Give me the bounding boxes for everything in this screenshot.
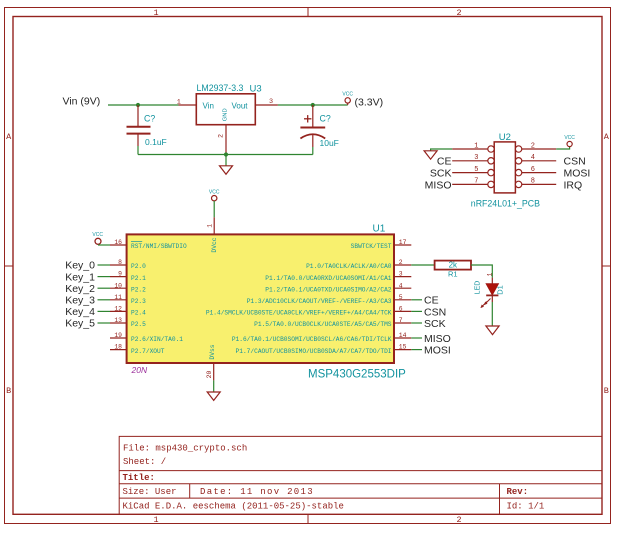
U1 left pin 13 P2.5 — [110, 317, 146, 328]
svg-text:MISO: MISO — [425, 179, 452, 191]
svg-text:Sheet: /: Sheet: / — [123, 457, 166, 467]
svg-text:C?: C? — [320, 114, 331, 124]
svg-text:CE: CE — [424, 295, 439, 307]
svg-text:Size: User: Size: User — [123, 487, 177, 497]
svg-text:12: 12 — [114, 306, 122, 313]
frame tick top — [307, 8, 309, 17]
frame tick left — [5, 265, 14, 267]
svg-text:RST/NMI/SBWTDIO: RST/NMI/SBWTDIO — [131, 243, 187, 250]
svg-text:D1: D1 — [495, 285, 504, 295]
svg-text:P1.5/TA0.0/UCB0CLK/UCA0STE/A5/: P1.5/TA0.0/UCB0CLK/UCA0STE/A5/CA5/TMS — [254, 321, 392, 328]
title block line under Size row — [119, 497, 602, 499]
svg-text:14: 14 — [399, 332, 407, 339]
svg-text:P1.6/TA0.1/UCB0SOMI/UCB0SCL/A6: P1.6/TA0.1/UCB0SOMI/UCB0SCL/A6/CA6/TDI/T… — [232, 336, 392, 343]
svg-text:Title:: Title: — [123, 473, 155, 483]
power symbol VCC at RST — [92, 232, 103, 244]
title block outline — [119, 436, 602, 514]
svg-text:SBWTCK/TEST: SBWTCK/TEST — [351, 243, 392, 250]
title block line under Title — [119, 483, 602, 485]
svg-text:P2.1: P2.1 — [131, 275, 146, 282]
U1 left pin 19 P2.6 — [110, 332, 183, 343]
title block separator Rev/Id — [499, 484, 501, 515]
svg-text:4: 4 — [531, 154, 535, 162]
wire C2 bottom — [312, 147, 314, 155]
svg-text:P1.4/SMCLK/UCB0STE/UCA0CLK/VRE: P1.4/SMCLK/UCB0STE/UCA0CLK/VREF+/VEREF+/… — [206, 310, 392, 317]
ground at U2 pin1 — [424, 151, 437, 159]
svg-text:MISO: MISO — [424, 333, 451, 345]
svg-text:1: 1 — [474, 142, 478, 150]
svg-text:SCK: SCK — [430, 168, 452, 180]
svg-text:9: 9 — [118, 271, 122, 278]
svg-text:SCK: SCK — [424, 318, 446, 330]
svg-text:2: 2 — [456, 515, 461, 525]
svg-text:U2: U2 — [499, 132, 511, 143]
resistor R1 2k — [435, 261, 471, 279]
svg-text:LED: LED — [475, 281, 482, 295]
ground under U1 — [207, 392, 220, 400]
svg-text:7: 7 — [474, 178, 478, 186]
svg-text:1: 1 — [486, 273, 493, 277]
U1 left pin 18 P2.7 — [110, 344, 165, 355]
wire SCK (U1 side) — [411, 322, 422, 324]
svg-text:IRQ: IRQ — [564, 179, 583, 191]
svg-text:File: msp430_crypto.sch: File: msp430_crypto.sch — [123, 444, 247, 454]
svg-text:17: 17 — [399, 239, 407, 246]
U1 right pin 17 — [351, 239, 412, 250]
pin 1 of U3 — [179, 104, 197, 106]
U2 left pin 1 — [452, 142, 494, 152]
wire U3 out to VCC — [278, 104, 348, 106]
U1 right pin 3 — [265, 271, 411, 282]
node junction rail/gnd — [224, 152, 228, 156]
svg-text:3: 3 — [474, 154, 478, 162]
svg-text:11: 11 — [114, 294, 122, 301]
svg-text:8: 8 — [118, 259, 122, 266]
wire Key_4 — [98, 310, 111, 312]
svg-text:16: 16 — [114, 239, 122, 246]
svg-text:VCC: VCC — [92, 232, 103, 238]
frame tick right — [602, 265, 611, 267]
svg-text:P2.7/XOUT: P2.7/XOUT — [131, 348, 165, 355]
svg-text:1: 1 — [177, 99, 181, 107]
svg-text:5: 5 — [474, 166, 478, 174]
svg-text:A: A — [6, 132, 12, 142]
svg-text:P2.4: P2.4 — [131, 310, 146, 317]
wire Key_0 — [98, 264, 111, 266]
svg-text:7: 7 — [399, 317, 403, 324]
power symbol VCC above U1 — [209, 190, 220, 201]
U1 left pin 12 P2.4 — [110, 306, 146, 317]
svg-text:P1.2/TA0.1/UCA0TXD/UCA0SIMO/A2: P1.2/TA0.1/UCA0TXD/UCA0SIMO/A2/CA2 — [265, 286, 392, 293]
svg-text:Key_3: Key_3 — [65, 295, 95, 307]
pin 20 of U1 DVss — [213, 363, 215, 380]
svg-text:P1.7/CAOUT/UCB0SIMO/UCB0SDA/A7: P1.7/CAOUT/UCB0SIMO/UCB0SDA/A7/CA7/TDO/T… — [236, 348, 392, 355]
wire CSN (U1 side) — [411, 310, 422, 312]
MCU U1 MSP430G2553 body — [127, 234, 394, 363]
wire R1 to LED — [471, 265, 492, 278]
svg-text:2k: 2k — [449, 261, 458, 270]
ground under D1 — [486, 326, 499, 335]
svg-text:CSN: CSN — [564, 156, 586, 168]
svg-text:P2.2: P2.2 — [131, 286, 146, 293]
svg-text:3: 3 — [399, 271, 403, 278]
svg-text:MOSI: MOSI — [424, 345, 451, 357]
svg-text:Key_2: Key_2 — [65, 283, 95, 295]
U1 right pin 2 — [306, 259, 411, 270]
wire MISO (U1 side) — [411, 337, 422, 339]
svg-text:2: 2 — [218, 134, 226, 138]
wire to ground symbol — [225, 155, 227, 166]
svg-text:1: 1 — [153, 515, 158, 525]
svg-text:R1: R1 — [448, 270, 458, 279]
svg-text:GND: GND — [223, 108, 229, 121]
U1 left pin 10 P2.2 — [110, 282, 146, 293]
pin 2 of U3 — [225, 125, 227, 155]
svg-text:VCC: VCC — [209, 190, 220, 196]
svg-text:P2.6/XIN/TA0.1: P2.6/XIN/TA0.1 — [131, 336, 183, 343]
U1 right pin 15 — [236, 344, 412, 355]
U1 left pin 11 P2.3 — [110, 294, 146, 305]
svg-text:LM2937-3.3: LM2937-3.3 — [197, 83, 244, 93]
svg-text:P1.3/ADC10CLK/CAOUT/VREF-/VERE: P1.3/ADC10CLK/CAOUT/VREF-/VEREF-/A3/CA3 — [247, 298, 392, 305]
wire CE (U1 side) — [411, 299, 422, 301]
capacitor C1 0.1uF — [127, 105, 167, 147]
svg-text:VCC: VCC — [564, 135, 575, 141]
svg-text:2: 2 — [399, 259, 403, 266]
svg-text:P2.0: P2.0 — [131, 263, 146, 270]
svg-text:P1.1/TA0.0/UCA0RXD/UCA0SOMI/A1: P1.1/TA0.0/UCA0RXD/UCA0SOMI/A1/CA1 — [265, 275, 392, 282]
U1 right pin 6 — [206, 306, 411, 317]
svg-text:CSN: CSN — [424, 306, 446, 318]
svg-text:4: 4 — [399, 282, 403, 289]
svg-text:8: 8 — [531, 178, 535, 186]
wire LED to ground — [491, 302, 493, 326]
U1 right pin 7 — [254, 317, 411, 328]
wire VCC to U1 pin 1 — [213, 201, 215, 217]
svg-text:6: 6 — [531, 166, 535, 174]
svg-text:B: B — [604, 386, 609, 396]
wire Key_5 — [98, 322, 111, 324]
frame tick bottom — [307, 514, 309, 523]
svg-text:Vin (9V): Vin (9V) — [63, 96, 101, 108]
svg-text:1: 1 — [206, 224, 213, 228]
U1 left pin 16 RST — [110, 239, 187, 250]
svg-text:C?: C? — [144, 114, 155, 124]
svg-text:Vin: Vin — [203, 101, 214, 110]
svg-text:13: 13 — [114, 317, 122, 324]
svg-text:10uF: 10uF — [320, 138, 339, 148]
svg-text:Vout: Vout — [232, 101, 249, 110]
svg-text:Rev:: Rev: — [507, 487, 529, 497]
svg-text:6: 6 — [399, 306, 403, 313]
svg-text:VCC: VCC — [342, 92, 353, 98]
wire VCC to RST — [97, 243, 99, 246]
svg-text:P1.0/TA0CLK/ACLK/A0/CA0: P1.0/TA0CLK/ACLK/A0/CA0 — [306, 263, 392, 270]
svg-text:20: 20 — [206, 371, 213, 379]
capacitor C2 10uF — [300, 105, 338, 148]
U1 right pin 5 — [247, 294, 412, 305]
U1 left pin 8 P2.0 — [110, 259, 146, 270]
svg-text:15: 15 — [399, 344, 407, 351]
svg-text:18: 18 — [114, 344, 122, 351]
svg-text:DVss: DVss — [209, 344, 216, 359]
node junction C1/Vin — [136, 103, 140, 107]
power symbol VCC at U2 — [564, 135, 575, 146]
wire Vin label to regulator — [108, 104, 179, 106]
svg-text:DVcc: DVcc — [211, 237, 218, 252]
svg-text:3: 3 — [269, 98, 273, 106]
svg-text:Id: 1/1: Id: 1/1 — [507, 501, 545, 511]
svg-text:0.1uF: 0.1uF — [145, 137, 167, 147]
pin 1 of U1 DVcc — [213, 217, 215, 234]
U2 right pin 2 — [515, 142, 556, 152]
wire U2 pin2 to VCC — [556, 147, 569, 149]
svg-text:19: 19 — [114, 332, 122, 339]
power symbol VCC (3.3V) — [342, 92, 353, 105]
svg-text:Key_5: Key_5 — [65, 318, 95, 330]
U2 right pin 6 — [515, 166, 556, 176]
svg-text:MSP430G2553DIP: MSP430G2553DIP — [308, 369, 406, 381]
U2 right pin 4 — [515, 154, 556, 164]
wire C1 bottom — [137, 146, 139, 155]
svg-text:B: B — [6, 386, 11, 396]
U1 right pin 14 — [232, 332, 411, 343]
ground under U3 — [220, 166, 233, 175]
connector U2 body — [494, 142, 515, 193]
title block separator Size/Date — [189, 484, 191, 498]
U2 left pin 7 — [452, 178, 494, 188]
svg-text:U3: U3 — [250, 83, 262, 94]
regulator U3 LM2937-3.3 — [196, 83, 261, 125]
svg-text:2: 2 — [531, 142, 535, 150]
svg-text:P2.5: P2.5 — [131, 321, 146, 328]
svg-text:KiCad E.D.A. eeschema (2011-0: KiCad E.D.A. eeschema (2011-05-25)-stabl… — [123, 501, 344, 511]
svg-text:Key_0: Key_0 — [65, 260, 95, 272]
wire Key_3 — [98, 299, 111, 301]
wire U2 pin1 to ground — [431, 149, 453, 151]
svg-text:10: 10 — [114, 282, 122, 289]
svg-text:2: 2 — [456, 8, 461, 18]
U1 left pin 9 P2.1 — [110, 271, 146, 282]
wire Key_1 — [98, 276, 111, 278]
wire U1 pin2 to R1 — [411, 264, 434, 266]
svg-text:U1: U1 — [373, 224, 386, 235]
svg-text:CE: CE — [437, 156, 452, 168]
svg-text:Key_4: Key_4 — [65, 306, 95, 318]
U2 right pin 8 — [515, 178, 556, 188]
svg-text:A: A — [604, 132, 610, 142]
wire MOSI (U1 side) — [411, 349, 422, 351]
title block line under Sheet — [119, 470, 602, 472]
U2 left pin 5 — [452, 166, 494, 176]
U1 right pin 4 — [265, 282, 411, 293]
LED D1 — [475, 273, 505, 308]
wire ground rail — [138, 154, 313, 156]
U2 left pin 3 — [452, 154, 494, 164]
svg-text:(3.3V): (3.3V) — [355, 96, 384, 108]
wire Key_2 — [98, 287, 111, 289]
svg-text:20N: 20N — [131, 365, 148, 375]
svg-text:Key_1: Key_1 — [65, 271, 95, 283]
svg-text:P2.3: P2.3 — [131, 298, 146, 305]
pin 3 of U3 — [255, 104, 278, 106]
svg-text:Date: 11 nov 2013: Date: 11 nov 2013 — [200, 487, 314, 497]
svg-text:5: 5 — [399, 294, 403, 301]
wire DVss to ground — [213, 380, 215, 391]
svg-text:1: 1 — [153, 8, 158, 18]
svg-text:nRF24L01+_PCB: nRF24L01+_PCB — [471, 199, 540, 209]
svg-text:MOSI: MOSI — [564, 168, 591, 180]
node junction C2/Vout — [311, 103, 315, 107]
